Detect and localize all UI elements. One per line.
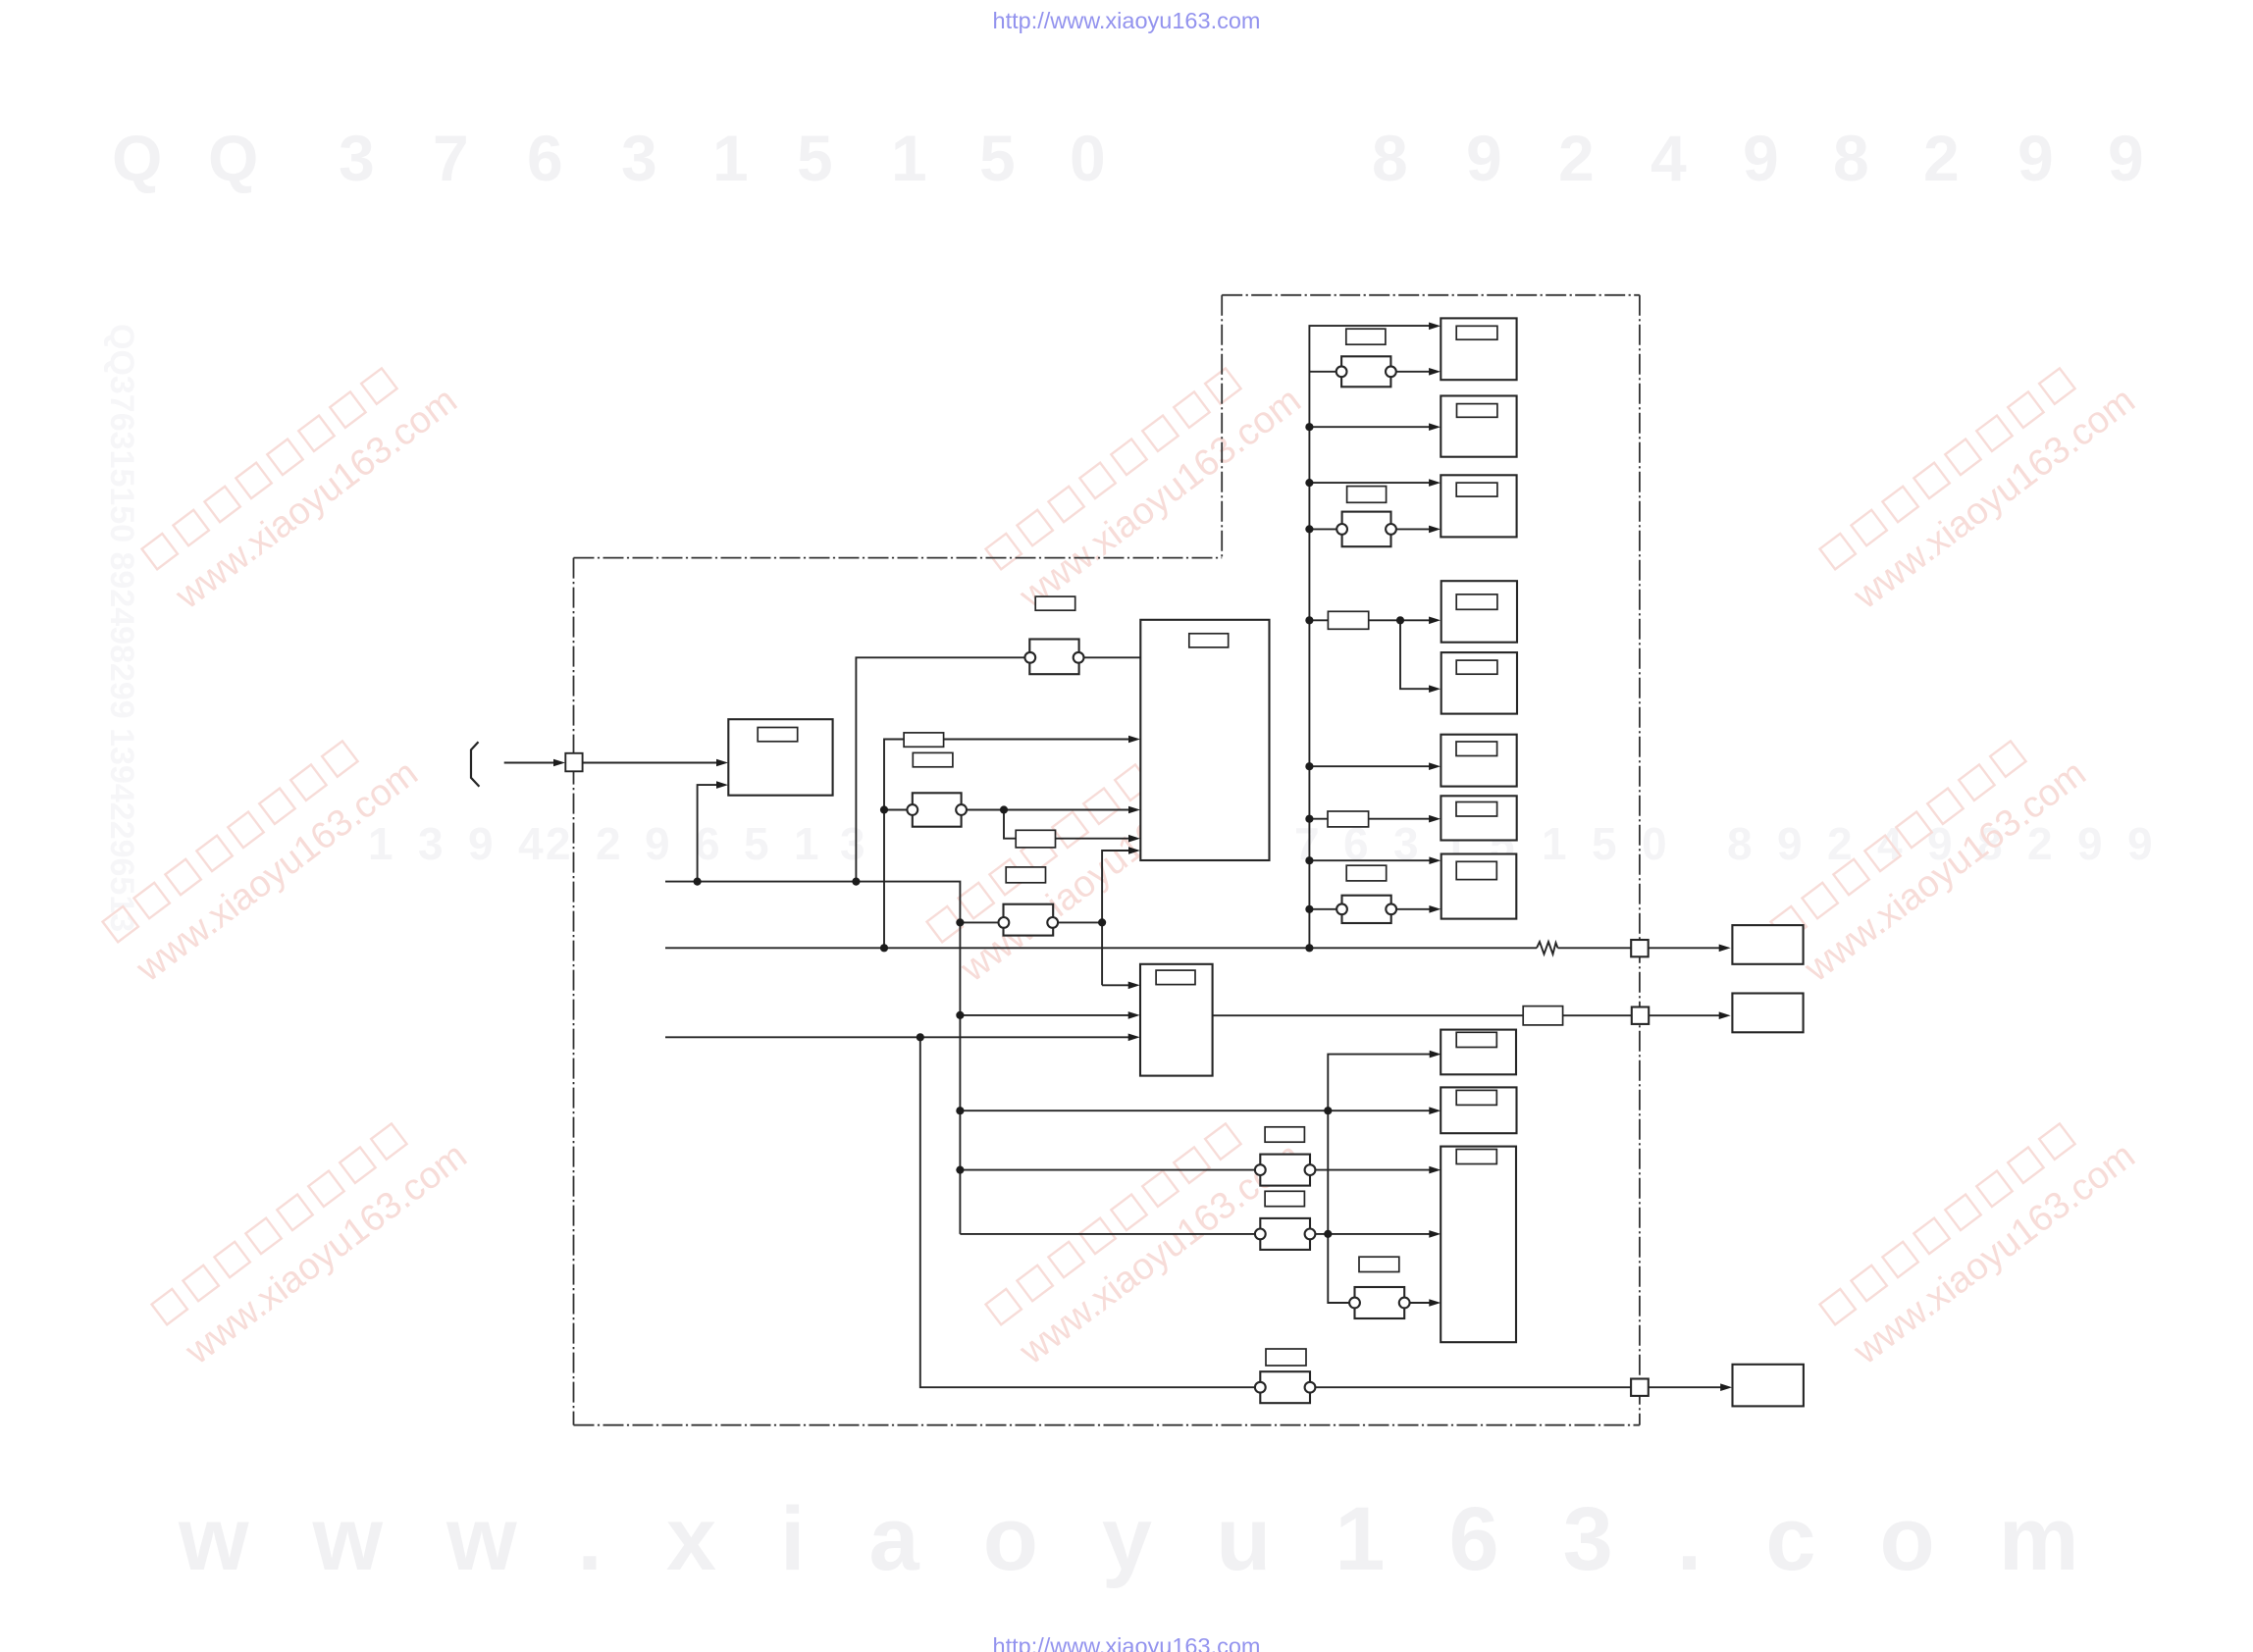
svg-text:9: 9 — [2017, 122, 2054, 194]
svg-text:1: 1 — [891, 122, 927, 194]
connector CN9 — [1336, 356, 1396, 387]
arrow into B1 pin2 — [1128, 1011, 1140, 1019]
svg-text:www.xiaoyu163.com: www.xiaoyu163.com — [168, 380, 465, 618]
pad P2 (square on frame) — [1631, 940, 1649, 956]
IC R5 — [1441, 652, 1517, 714]
frame left edge — [573, 558, 575, 1425]
wire LW1 to pad P2 — [1558, 947, 1632, 949]
IC D3 — [1733, 1365, 1804, 1407]
series component L1 — [904, 733, 944, 747]
arrow into R6 — [1429, 762, 1441, 770]
junction bus-CN11 — [1305, 905, 1313, 913]
svg-text:9: 9 — [468, 818, 494, 869]
label R8 — [1456, 861, 1496, 879]
svg-text:3: 3 — [339, 122, 375, 194]
wire B1 output rail — [1213, 1014, 1725, 1016]
IC R9b — [1441, 1087, 1516, 1133]
wire P2 to IC D1 — [1649, 947, 1725, 949]
wire CN5 feed (row A) — [960, 1169, 1255, 1171]
COMPONENT BOXES LAYER — [728, 318, 1804, 1406]
svg-text:9: 9 — [1466, 122, 1502, 194]
arrow into R9b — [1429, 1107, 1441, 1114]
wire input to pad P1 — [504, 762, 560, 764]
svg-text:http://www.xiaoyu163.com: http://www.xiaoyu163.com — [993, 8, 1261, 33]
wire P4 to IC D3 — [1649, 1386, 1728, 1388]
svg-text:5: 5 — [744, 818, 769, 869]
svg-text:9: 9 — [645, 818, 670, 869]
svg-text:Q: Q — [208, 122, 258, 194]
series component L5 — [1328, 811, 1369, 827]
wire long rail LW3 to IC R9b — [960, 1110, 1436, 1111]
wire bus to CN10 — [1309, 528, 1336, 530]
arrow into D2 — [1719, 1011, 1731, 1019]
frame notch horizontal edge — [574, 557, 1223, 559]
svg-text:6: 6 — [527, 122, 563, 194]
label R1 — [1456, 326, 1497, 339]
junction x901-LW1 — [880, 944, 888, 952]
frame bottom edge — [574, 1424, 1640, 1426]
arrow into R4 — [1429, 617, 1441, 625]
label R3 — [1456, 483, 1497, 496]
svg-text:2: 2 — [596, 818, 621, 869]
wire branch to IC R5 — [1400, 620, 1437, 689]
wire CN3 feed — [960, 921, 999, 923]
wire bus to IC R2 — [1309, 426, 1436, 428]
wire CN6 to IC R10 (row B) — [1315, 1233, 1437, 1235]
label R9a — [1456, 1032, 1496, 1047]
arrow into R3 pin1 — [1429, 479, 1441, 487]
wire bus to IC R7 — [1309, 818, 1436, 820]
pad P4 (square on frame) — [1631, 1379, 1649, 1396]
IC R3 — [1441, 475, 1516, 537]
label A1 — [758, 728, 798, 742]
svg-text:www.xiaoyu163.com: www.xiaoyu163.com — [178, 1489, 2143, 1589]
wire CN5 to IC R10 — [1315, 1169, 1437, 1171]
series component L3 — [1523, 1007, 1562, 1025]
wire CN11 to IC R8 — [1396, 908, 1437, 910]
svg-text:5: 5 — [797, 122, 833, 194]
IC A1 — [728, 719, 832, 796]
faint QQ digits row top — [112, 122, 2144, 194]
input bracket — [471, 742, 479, 787]
svg-text:8: 8 — [1372, 122, 1408, 194]
label CN1 — [1035, 596, 1075, 610]
wire CN9 to IC R1 — [1395, 371, 1436, 373]
wire P1 to IC A1 — [583, 762, 723, 764]
pink rotated watermarks — [102, 344, 2143, 1373]
wire B1 pin2 — [960, 1014, 1135, 1016]
connector CN5 — [1255, 1155, 1316, 1186]
svg-text:3: 3 — [621, 122, 657, 194]
wire bus to CN11 — [1309, 908, 1336, 910]
wire riser x978 top — [959, 882, 962, 1234]
svg-text:7: 7 — [433, 122, 469, 194]
junction bus-R4 — [1305, 616, 1313, 624]
svg-text:www.xiaoyu163.com: www.xiaoyu163.com — [1846, 380, 2143, 618]
svg-text:3: 3 — [1393, 818, 1419, 869]
arrow into D3 — [1720, 1383, 1732, 1391]
frame right edge — [1639, 295, 1641, 1425]
arrow into U1 pin2 — [1128, 736, 1140, 744]
label R9b — [1456, 1090, 1496, 1105]
connector CN10 — [1336, 512, 1396, 547]
IC B1 — [1140, 964, 1213, 1076]
IC R10 — [1441, 1147, 1516, 1343]
wire bus to CN9 — [1309, 371, 1336, 373]
IC R6 — [1441, 735, 1516, 787]
svg-text:2: 2 — [1827, 818, 1853, 869]
svg-text:2: 2 — [1923, 122, 1960, 194]
label R6 — [1456, 742, 1497, 756]
IC D1 — [1732, 925, 1803, 964]
svg-text:6: 6 — [695, 818, 720, 869]
label CN11 — [1346, 865, 1387, 881]
pad P1 (square on frame) — [565, 753, 582, 772]
arrow into B1 pin1 — [1128, 982, 1140, 990]
wire CN1 to IC U1 — [1083, 656, 1140, 658]
label B1 — [1156, 970, 1195, 985]
wire long rail LW2 (B1 pin3) — [665, 1036, 1135, 1038]
arrow into R2 — [1429, 423, 1441, 431]
svg-text:www.xiaoyu163.com: www.xiaoyu163.com — [178, 1135, 475, 1373]
label CN10 — [1347, 487, 1387, 503]
svg-text:www.xiaoyu163.com: www.xiaoyu163.com — [1012, 380, 1309, 618]
junction x978-CN3 — [956, 918, 964, 926]
svg-text:www.xiaoyu163.com: www.xiaoyu163.com — [1846, 1135, 2143, 1373]
arrow into R7 — [1429, 815, 1441, 823]
svg-text:5: 5 — [979, 122, 1016, 194]
svg-text:8: 8 — [1833, 122, 1869, 194]
arrow into B1 pin3 — [1128, 1034, 1140, 1042]
series component L2 — [1016, 830, 1055, 848]
wire CN3 to node — [1058, 921, 1103, 923]
wire CN10 to IC R3 — [1395, 528, 1436, 530]
label R7 — [1456, 802, 1497, 817]
wire branch to IC R9a — [1328, 1055, 1436, 1111]
connector CN1 — [1024, 640, 1083, 675]
junction R4-R5 branch — [1396, 616, 1404, 624]
IC R1 — [1441, 318, 1516, 380]
arrow into U1 pin4 — [1128, 835, 1140, 843]
wire series branch to U1 pin2 — [884, 740, 1135, 949]
svg-text:9: 9 — [2127, 818, 2153, 869]
frame top edge — [1222, 294, 1640, 296]
IC U1 — [1140, 620, 1269, 860]
junction bus-R3 — [1305, 479, 1313, 487]
wire CN2 to U1 pin3 — [966, 809, 1135, 811]
arrow into R10 pin2 — [1429, 1230, 1441, 1238]
junction x978-LW3 — [956, 1107, 964, 1114]
junction CN6-x1353 — [1324, 1230, 1332, 1238]
arrow into D1 — [1719, 945, 1731, 953]
wire node N899 horizontal — [665, 881, 960, 883]
junction bus-R6 — [1305, 762, 1313, 770]
wire bus to IC R6 — [1309, 765, 1436, 767]
svg-text:QQ376315150 892498299 13942296: QQ376315150 892498299 13942296513 — [103, 324, 140, 932]
label R5 — [1456, 660, 1497, 674]
arrow into R1 pin1 — [1429, 323, 1441, 331]
svg-text:1: 1 — [1542, 818, 1567, 869]
svg-text:3: 3 — [418, 818, 444, 869]
connector CN6 — [1255, 1218, 1316, 1250]
wire bus to IC R8 — [1309, 859, 1436, 861]
junction x978-B1pin2 — [956, 1011, 964, 1019]
board outline (dash-dot frame) — [574, 295, 1640, 1425]
JUNCTION DOTS — [694, 423, 1405, 1238]
svg-text:9: 9 — [2077, 818, 2103, 869]
ARROW HEADS — [553, 323, 1732, 1392]
label CN2 — [913, 752, 953, 766]
junction bus-R2 — [1305, 423, 1313, 431]
arrow into R1 pin2 — [1429, 368, 1441, 376]
svg-text:0: 0 — [1642, 818, 1667, 869]
wire CN2 tap — [884, 809, 908, 811]
frame notch vertical edge — [1221, 295, 1223, 558]
pad P3 (square on frame) — [1632, 1007, 1649, 1024]
svg-text:4: 4 — [1650, 122, 1687, 194]
connector CN11 — [1336, 896, 1396, 923]
connector CN2 — [907, 793, 967, 826]
svg-text:2: 2 — [1558, 122, 1595, 194]
arrow into R10 pin3 — [1429, 1299, 1441, 1307]
wire long rail LW1 — [665, 947, 1537, 949]
junction x901-CN2 — [880, 805, 888, 813]
svg-text:1: 1 — [712, 122, 749, 194]
IC R4 — [1441, 581, 1517, 643]
resistor R-zz on rail LW1 — [1537, 942, 1558, 955]
svg-text:1: 1 — [794, 818, 819, 869]
IC R7 — [1441, 796, 1516, 840]
label CN3 — [1006, 867, 1045, 883]
label CN6 — [1265, 1191, 1304, 1206]
junction LW2-riser — [917, 1033, 924, 1041]
svg-text:http://www.xiaoyu163.com: http://www.xiaoyu163.com — [993, 1633, 1261, 1652]
IC R8 — [1441, 854, 1517, 919]
wire riser to connector CN7 (row D) — [920, 1037, 1256, 1387]
wire riser to connector CN1 — [856, 657, 1024, 881]
bus vertical right column — [1309, 326, 1436, 948]
svg-text:4: 4 — [518, 818, 544, 869]
wire riser x1353 lower — [1328, 1110, 1350, 1303]
arrow into U1 pin5 — [1128, 847, 1140, 854]
svg-text:www.xiaoyu163.com: www.xiaoyu163.com — [129, 752, 426, 991]
label U1 — [1189, 634, 1229, 647]
label CN9 — [1346, 329, 1386, 344]
IC R2 — [1441, 396, 1516, 457]
junction CN2-out — [1000, 805, 1008, 813]
faint digits row middle — [368, 818, 2153, 869]
junction bus-CN10 — [1305, 525, 1313, 533]
junction bus-R8 — [1305, 856, 1313, 864]
label CN8 — [1359, 1257, 1399, 1271]
svg-text:0: 0 — [1070, 122, 1106, 194]
junction N899-CN1riser — [852, 878, 860, 886]
IC R9a — [1441, 1030, 1516, 1075]
arrow into R8 pin1 — [1429, 856, 1441, 864]
IC D2 — [1732, 994, 1803, 1033]
series component L4 — [1328, 611, 1368, 629]
label R4 — [1456, 594, 1497, 609]
svg-text:9: 9 — [1743, 122, 1779, 194]
arrow into A1 pin1 — [716, 759, 728, 767]
svg-text:2: 2 — [546, 818, 571, 869]
svg-text:9: 9 — [1777, 818, 1803, 869]
svg-text:1: 1 — [368, 818, 393, 869]
label R10 — [1456, 1150, 1496, 1164]
junction bus-LW1 — [1305, 944, 1313, 952]
wire series branch to U1 pin4 — [1004, 810, 1135, 839]
arrow into R3 pin2 — [1429, 526, 1441, 534]
label CN7 — [1266, 1349, 1306, 1366]
junction CN3-out — [1098, 918, 1106, 926]
svg-text:5: 5 — [1592, 818, 1617, 869]
arrow into R9a — [1430, 1051, 1441, 1058]
svg-text:9: 9 — [2108, 122, 2144, 194]
arrow into P1 — [553, 759, 565, 767]
junction LW3-x1353 — [1324, 1107, 1332, 1114]
label R2 — [1457, 404, 1497, 418]
wire bus to IC R3 — [1309, 482, 1436, 484]
connector CN3 — [999, 904, 1059, 936]
svg-text:3: 3 — [840, 818, 865, 869]
wire CN8 to IC R10 (row C) — [1409, 1302, 1437, 1304]
arrow into R8 pin2 — [1429, 905, 1441, 913]
arrow into R10 pin1 — [1429, 1166, 1441, 1174]
wire x978 to connector CN4 (row B) — [960, 1233, 1255, 1235]
arrow into U1 pin3 — [1128, 806, 1140, 814]
CIRCUIT LAYER — [471, 295, 1728, 1425]
connector CN8 — [1349, 1287, 1410, 1318]
svg-text:8: 8 — [1727, 818, 1753, 869]
wire A1 second input — [698, 785, 723, 882]
label CN5 — [1265, 1127, 1304, 1142]
arrow into A1 pin2 — [716, 781, 728, 789]
wire bus to series R4 path — [1309, 619, 1436, 621]
wire node to IC B1 pin1 — [1102, 984, 1135, 986]
wire node to U1 pin5 — [1102, 851, 1135, 985]
wire CN7 to pad P4 — [1315, 1386, 1631, 1388]
connector CN7 — [1255, 1371, 1316, 1403]
junction bus-R7 — [1305, 815, 1313, 823]
junction x978-CN5 — [956, 1166, 964, 1174]
svg-text:Q: Q — [112, 122, 162, 194]
arrow into R5 — [1429, 685, 1441, 693]
svg-text:www.xiaoyu163.com: www.xiaoyu163.com — [1797, 752, 2094, 991]
junction N899-A1 — [694, 878, 702, 886]
